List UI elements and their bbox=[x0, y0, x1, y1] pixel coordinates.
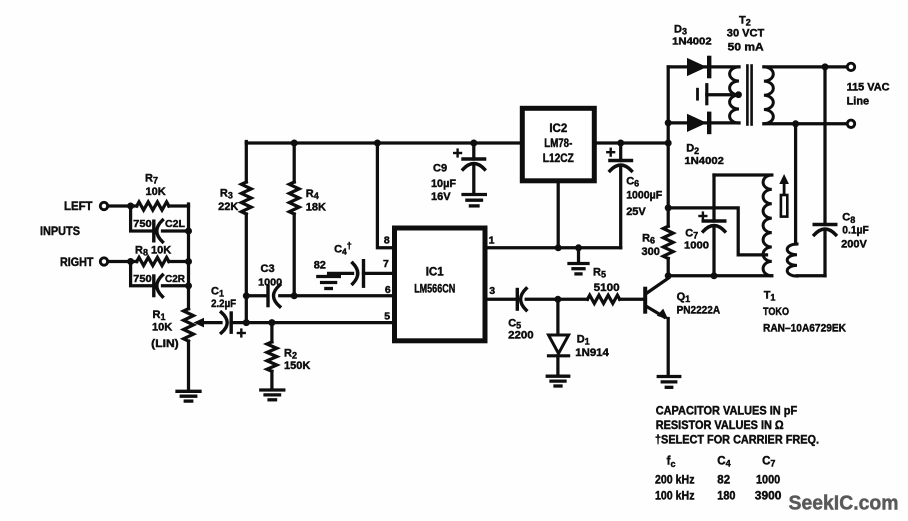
label R2 bbox=[284, 348, 297, 361]
svg-text:Line: Line bbox=[847, 95, 870, 107]
label C4 value 82 bbox=[314, 260, 326, 272]
svg-text:RESISTOR VALUES IN Ω: RESISTOR VALUES IN Ω bbox=[656, 420, 784, 432]
label D2 value 1N4002 bbox=[684, 155, 724, 167]
input terminal RIGHT bbox=[60, 257, 137, 269]
table row1 fc 200 kHz bbox=[655, 475, 695, 487]
label LM566CN bbox=[414, 284, 455, 296]
wire C3 to IC1 pin6 bbox=[280, 294, 395, 297]
note line 1 bbox=[656, 406, 798, 418]
wire collector rail bbox=[668, 274, 772, 277]
table header fc bbox=[667, 456, 676, 469]
line terminal bottom bbox=[847, 120, 854, 127]
label C9 value 10uF bbox=[431, 178, 456, 190]
transistor Q1 PN2222A bbox=[643, 278, 668, 375]
svg-text:TOKO: TOKO bbox=[763, 306, 789, 318]
label D3 value 1N4002 bbox=[672, 35, 712, 47]
capacitor C6 1000uF bbox=[610, 140, 632, 248]
watermark SeekIC.com bbox=[789, 492, 899, 515]
svg-text:C5: C5 bbox=[508, 317, 521, 330]
wire C5 to R5 bbox=[526, 296, 587, 303]
label C8 value 200V bbox=[841, 238, 867, 250]
svg-text:R8 10K: R8 10K bbox=[135, 245, 171, 258]
T1 tuning arrow bbox=[779, 174, 789, 194]
wire R1 to ground bbox=[187, 341, 190, 390]
label C7 value 1000 bbox=[684, 240, 709, 252]
diode D2 1N4002 bbox=[687, 114, 709, 132]
wire C2L to bus bbox=[163, 228, 193, 235]
label C6 value 25V bbox=[626, 206, 646, 218]
pin 3 label bbox=[489, 285, 495, 297]
svg-text:RAN–10A6729EK: RAN–10A6729EK bbox=[763, 323, 846, 335]
svg-text:C8: C8 bbox=[842, 212, 855, 225]
wire C4 to ground bbox=[329, 272, 353, 275]
svg-text:750: 750 bbox=[133, 273, 152, 285]
label C3 value 1000 bbox=[258, 277, 282, 289]
svg-text:R4: R4 bbox=[306, 188, 319, 201]
svg-text:10K: 10K bbox=[152, 322, 172, 334]
wire C4 to IC1 pin7 bbox=[364, 272, 395, 275]
wire rail to IC1 pin8 bbox=[374, 140, 395, 248]
label Line bbox=[847, 95, 870, 107]
pin 1 label bbox=[489, 234, 495, 246]
svg-text:R2: R2 bbox=[284, 348, 297, 361]
svg-text:C9: C9 bbox=[433, 163, 447, 175]
voltage regulator IC2 LM78-L12CZ box bbox=[522, 108, 594, 181]
label T2 bbox=[739, 15, 751, 28]
wire D3 row bbox=[668, 65, 739, 68]
svg-text:10K: 10K bbox=[146, 186, 166, 198]
svg-text:6: 6 bbox=[385, 284, 391, 296]
wire 750/C2R branch left bbox=[131, 262, 152, 286]
label C2R bbox=[165, 273, 185, 285]
table header C7 bbox=[762, 455, 775, 468]
op-amp/IC U1 IC1 LM566CN box bbox=[395, 228, 486, 341]
table header C4 bbox=[717, 455, 730, 468]
label 115 VAC bbox=[847, 81, 890, 93]
svg-text:IC2: IC2 bbox=[549, 123, 567, 135]
wire input bus bbox=[187, 204, 190, 309]
svg-text:C2L: C2L bbox=[165, 218, 186, 230]
svg-text:RIGHT: RIGHT bbox=[60, 257, 94, 269]
svg-text:115 VAC: 115 VAC bbox=[847, 81, 890, 93]
svg-text:1N914: 1N914 bbox=[575, 347, 609, 359]
C7 plus sign bbox=[700, 213, 707, 220]
svg-text:LEFT: LEFT bbox=[64, 201, 93, 213]
svg-text:3900: 3900 bbox=[755, 491, 782, 503]
label C6 bbox=[626, 176, 639, 189]
svg-text:0.1µF: 0.1µF bbox=[842, 224, 869, 236]
wire IC2 ground pin bbox=[555, 181, 562, 252]
resistor R2 150K bbox=[267, 323, 277, 389]
svg-text:22K: 22K bbox=[218, 201, 238, 213]
label Q1 value PN2222A bbox=[677, 305, 721, 317]
T2 center-tap stub symbol bbox=[698, 85, 742, 104]
ground below R1 bbox=[177, 391, 200, 401]
C6 plus sign bbox=[607, 149, 614, 156]
label C9 bbox=[433, 163, 447, 175]
ground below R2 bbox=[261, 390, 284, 400]
svg-text:2.2µF: 2.2µF bbox=[211, 298, 236, 310]
capacitor C9 10uF bbox=[463, 140, 485, 194]
label T2 30 VCT bbox=[727, 28, 765, 40]
pin 6 label bbox=[385, 284, 391, 296]
wire D2 row bbox=[668, 121, 739, 124]
svg-text:L12CZ: L12CZ bbox=[543, 153, 574, 165]
svg-text:R7: R7 bbox=[145, 173, 158, 186]
label C5 bbox=[508, 317, 521, 330]
svg-text:10µF: 10µF bbox=[431, 178, 456, 190]
label C7 bbox=[685, 227, 698, 240]
node right-input junction bbox=[127, 258, 134, 265]
svg-text:1: 1 bbox=[489, 234, 495, 246]
label C1 value 2.2uF bbox=[211, 298, 236, 310]
svg-text:C6: C6 bbox=[626, 176, 639, 189]
label D2 bbox=[686, 143, 699, 156]
svg-text:82: 82 bbox=[717, 475, 730, 487]
capacitor C3 1000 bbox=[268, 285, 280, 307]
wire IC1 pin3 bbox=[485, 298, 516, 301]
label R2 value 150K bbox=[284, 360, 310, 372]
svg-text:R6: R6 bbox=[642, 233, 655, 246]
label C3 bbox=[261, 263, 275, 275]
label 750 (left) bbox=[133, 218, 152, 230]
svg-text:(LIN): (LIN) bbox=[151, 338, 179, 350]
svg-text:100 kHz: 100 kHz bbox=[655, 491, 695, 503]
label T1 TOKO bbox=[763, 306, 789, 318]
label D3 bbox=[674, 24, 687, 37]
label R6 value 300 bbox=[642, 246, 660, 258]
svg-text:LM78-: LM78- bbox=[544, 138, 572, 150]
wire C2R to bus bbox=[163, 282, 193, 289]
label C8 bbox=[842, 212, 855, 225]
label R1 bbox=[153, 309, 166, 322]
svg-text:INPUTS: INPUTS bbox=[40, 226, 80, 238]
pin 8 label bbox=[384, 234, 390, 246]
node left-input junction bbox=[127, 203, 134, 210]
label R3 value 22K bbox=[218, 201, 238, 213]
label C8 value 0.1uF bbox=[842, 224, 869, 236]
svg-text:T2: T2 bbox=[739, 15, 751, 28]
wire IC1 pin1 to ground rail bbox=[485, 246, 621, 249]
C9 plus sign bbox=[454, 150, 461, 157]
ground below Q1 bbox=[658, 377, 680, 388]
R1 wiper arrow bbox=[193, 318, 221, 328]
svg-text:D1: D1 bbox=[577, 334, 590, 347]
wire tank tap to T1 tap bbox=[668, 208, 766, 255]
svg-text:C4†: C4† bbox=[334, 241, 352, 257]
svg-text:150K: 150K bbox=[284, 360, 310, 372]
label C5 value 2200 bbox=[508, 330, 534, 342]
transformer T2 core bbox=[747, 66, 751, 125]
svg-text:C3: C3 bbox=[261, 263, 275, 275]
ground below D1 bbox=[547, 376, 569, 386]
label R1 value 10K bbox=[152, 322, 172, 334]
pin 7 label bbox=[383, 258, 389, 270]
ground at rail bbox=[569, 248, 588, 274]
transformer T1 secondary winding bbox=[787, 124, 797, 276]
pin 5 label bbox=[384, 310, 390, 322]
resistor R3 22K bbox=[241, 142, 251, 323]
label R5 bbox=[593, 266, 606, 279]
resistor R4 18K bbox=[289, 140, 299, 300]
svg-text:SeekIC.com: SeekIC.com bbox=[789, 492, 899, 515]
transformer T2 primary winding bbox=[730, 67, 739, 123]
svg-text:†SELECT FOR CARRIER FREQ.: †SELECT FOR CARRIER FREQ. bbox=[655, 435, 819, 447]
label R4 bbox=[306, 188, 319, 201]
transformer T1 primary winding bbox=[763, 175, 772, 276]
label Q1 bbox=[677, 291, 691, 304]
svg-text:3: 3 bbox=[489, 285, 495, 297]
label R3 bbox=[220, 188, 233, 201]
svg-text:5100: 5100 bbox=[594, 282, 620, 294]
table row2 fc 100 kHz bbox=[655, 491, 695, 503]
table row2 C4 180 bbox=[717, 491, 735, 503]
note line 2 bbox=[656, 420, 784, 432]
C1 plus sign bbox=[238, 330, 245, 337]
label C2L bbox=[165, 218, 186, 230]
svg-text:5: 5 bbox=[384, 310, 390, 322]
transformer T2 secondary winding bbox=[764, 67, 773, 124]
label INPUTS bbox=[40, 226, 80, 238]
label IC2 bbox=[549, 123, 567, 135]
svg-text:C4: C4 bbox=[717, 455, 730, 468]
label C6 value 1000uF bbox=[626, 190, 662, 202]
ground at C4 bbox=[318, 277, 340, 289]
wire T2 top to line terminal bbox=[764, 63, 848, 70]
label R6 bbox=[642, 233, 655, 246]
svg-text:1000: 1000 bbox=[756, 475, 780, 487]
diode D3 1N4002 bbox=[687, 58, 709, 76]
svg-text:2200: 2200 bbox=[508, 330, 534, 342]
node collector rail bbox=[665, 272, 718, 279]
label C4 dagger bbox=[334, 241, 352, 257]
label T1 part RAN-10A6729EK bbox=[763, 323, 846, 335]
svg-text:200V: 200V bbox=[841, 238, 867, 250]
svg-text:D2: D2 bbox=[686, 143, 699, 156]
svg-text:750: 750 bbox=[133, 218, 152, 230]
svg-text:1000: 1000 bbox=[684, 240, 709, 252]
resistor R8 10K bbox=[137, 257, 192, 265]
capacitor C5 2200 bbox=[517, 289, 526, 311]
label R8 10K bbox=[135, 245, 171, 258]
svg-text:1000µF: 1000µF bbox=[626, 190, 662, 202]
svg-text:180: 180 bbox=[717, 491, 735, 503]
svg-text:1N4002: 1N4002 bbox=[672, 35, 712, 47]
wire 750/C2L branch left bbox=[131, 206, 152, 231]
svg-text:50 mA: 50 mA bbox=[728, 41, 764, 53]
svg-text:1N4002: 1N4002 bbox=[684, 155, 724, 167]
capacitor C7 1000 bbox=[703, 175, 725, 276]
line terminal top bbox=[847, 63, 854, 70]
note line 3 bbox=[655, 435, 819, 447]
svg-text:30 VCT: 30 VCT bbox=[727, 28, 765, 40]
capacitor C2L bbox=[154, 220, 163, 242]
wire T1 primary top bbox=[714, 173, 772, 176]
wire C1 to IC1 pin5 bbox=[231, 319, 395, 326]
label L12CZ bbox=[543, 153, 574, 165]
capacitor C8 0.1uF bbox=[814, 67, 836, 276]
svg-text:C1: C1 bbox=[211, 286, 224, 299]
label IC1 bbox=[426, 266, 445, 278]
svg-text:1000: 1000 bbox=[258, 277, 282, 289]
svg-text:R1: R1 bbox=[153, 309, 166, 322]
label 750 (right) bbox=[133, 273, 152, 285]
svg-text:200 kHz: 200 kHz bbox=[655, 475, 695, 487]
label R7 bbox=[145, 173, 158, 186]
label D1 value 1N914 bbox=[575, 347, 609, 359]
wire top supply rail bbox=[246, 141, 668, 144]
table row1 C4 82 bbox=[717, 475, 730, 487]
label C1 bbox=[211, 286, 224, 299]
resistor R7 10K bbox=[137, 202, 189, 210]
wire rectifier column bbox=[665, 67, 672, 208]
ground below C9 bbox=[463, 195, 485, 206]
node R3/rail corner bbox=[0, 0, 1, 1]
svg-text:T1: T1 bbox=[764, 289, 776, 302]
svg-text:LM566CN: LM566CN bbox=[414, 284, 455, 296]
node tank tap bbox=[665, 204, 672, 211]
wire C3 left bbox=[246, 294, 266, 297]
svg-text:Q1: Q1 bbox=[677, 291, 691, 304]
label T1 bbox=[764, 289, 776, 302]
svg-text:16V: 16V bbox=[431, 191, 451, 203]
label R4 value 18K bbox=[306, 202, 326, 214]
label T2 50 mA bbox=[728, 41, 764, 53]
capacitor C1 2.2uF bbox=[221, 312, 231, 333]
svg-text:fc: fc bbox=[667, 456, 676, 469]
diode D1 1N914 bbox=[549, 299, 569, 375]
node ground-rail junction bbox=[575, 244, 582, 251]
svg-text:300: 300 bbox=[642, 246, 660, 258]
table row2 C7 3900 bbox=[755, 491, 782, 503]
svg-text:PN2222A: PN2222A bbox=[677, 305, 721, 317]
svg-text:8: 8 bbox=[384, 234, 390, 246]
node R3/C3 junction bbox=[243, 292, 250, 299]
resistor R5 5100 bbox=[587, 295, 643, 303]
label R1 (LIN) bbox=[151, 338, 179, 350]
wire T2 bottom to line terminal bbox=[764, 120, 848, 127]
table row1 C7 1000 bbox=[756, 475, 780, 487]
capacitor C4 82pF bbox=[353, 261, 364, 287]
potentiometer R1 10K (LIN) bbox=[184, 309, 194, 341]
capacitor C2R bbox=[154, 275, 163, 297]
svg-text:R5: R5 bbox=[593, 266, 606, 279]
svg-text:C2R: C2R bbox=[165, 273, 185, 285]
label C9 value 16V bbox=[431, 191, 451, 203]
svg-text:C7: C7 bbox=[762, 455, 775, 468]
T1 tuning slug bbox=[781, 195, 787, 217]
label R5 value 5100 bbox=[594, 282, 620, 294]
wire C8 bottom to T1 secondary bbox=[797, 274, 825, 277]
svg-text:7: 7 bbox=[383, 258, 389, 270]
svg-text:CAPACITOR VALUES IN pF: CAPACITOR VALUES IN pF bbox=[656, 406, 798, 418]
label D1 bbox=[577, 334, 590, 347]
svg-text:IC1: IC1 bbox=[426, 266, 445, 278]
svg-text:R3: R3 bbox=[220, 188, 233, 201]
svg-text:18K: 18K bbox=[306, 202, 326, 214]
input terminal LEFT bbox=[64, 201, 137, 213]
label R7 value 10K bbox=[146, 186, 166, 198]
svg-text:25V: 25V bbox=[626, 206, 646, 218]
label LM78- bbox=[544, 138, 572, 150]
svg-text:82: 82 bbox=[314, 260, 326, 272]
resistor R6 300 bbox=[663, 208, 673, 276]
